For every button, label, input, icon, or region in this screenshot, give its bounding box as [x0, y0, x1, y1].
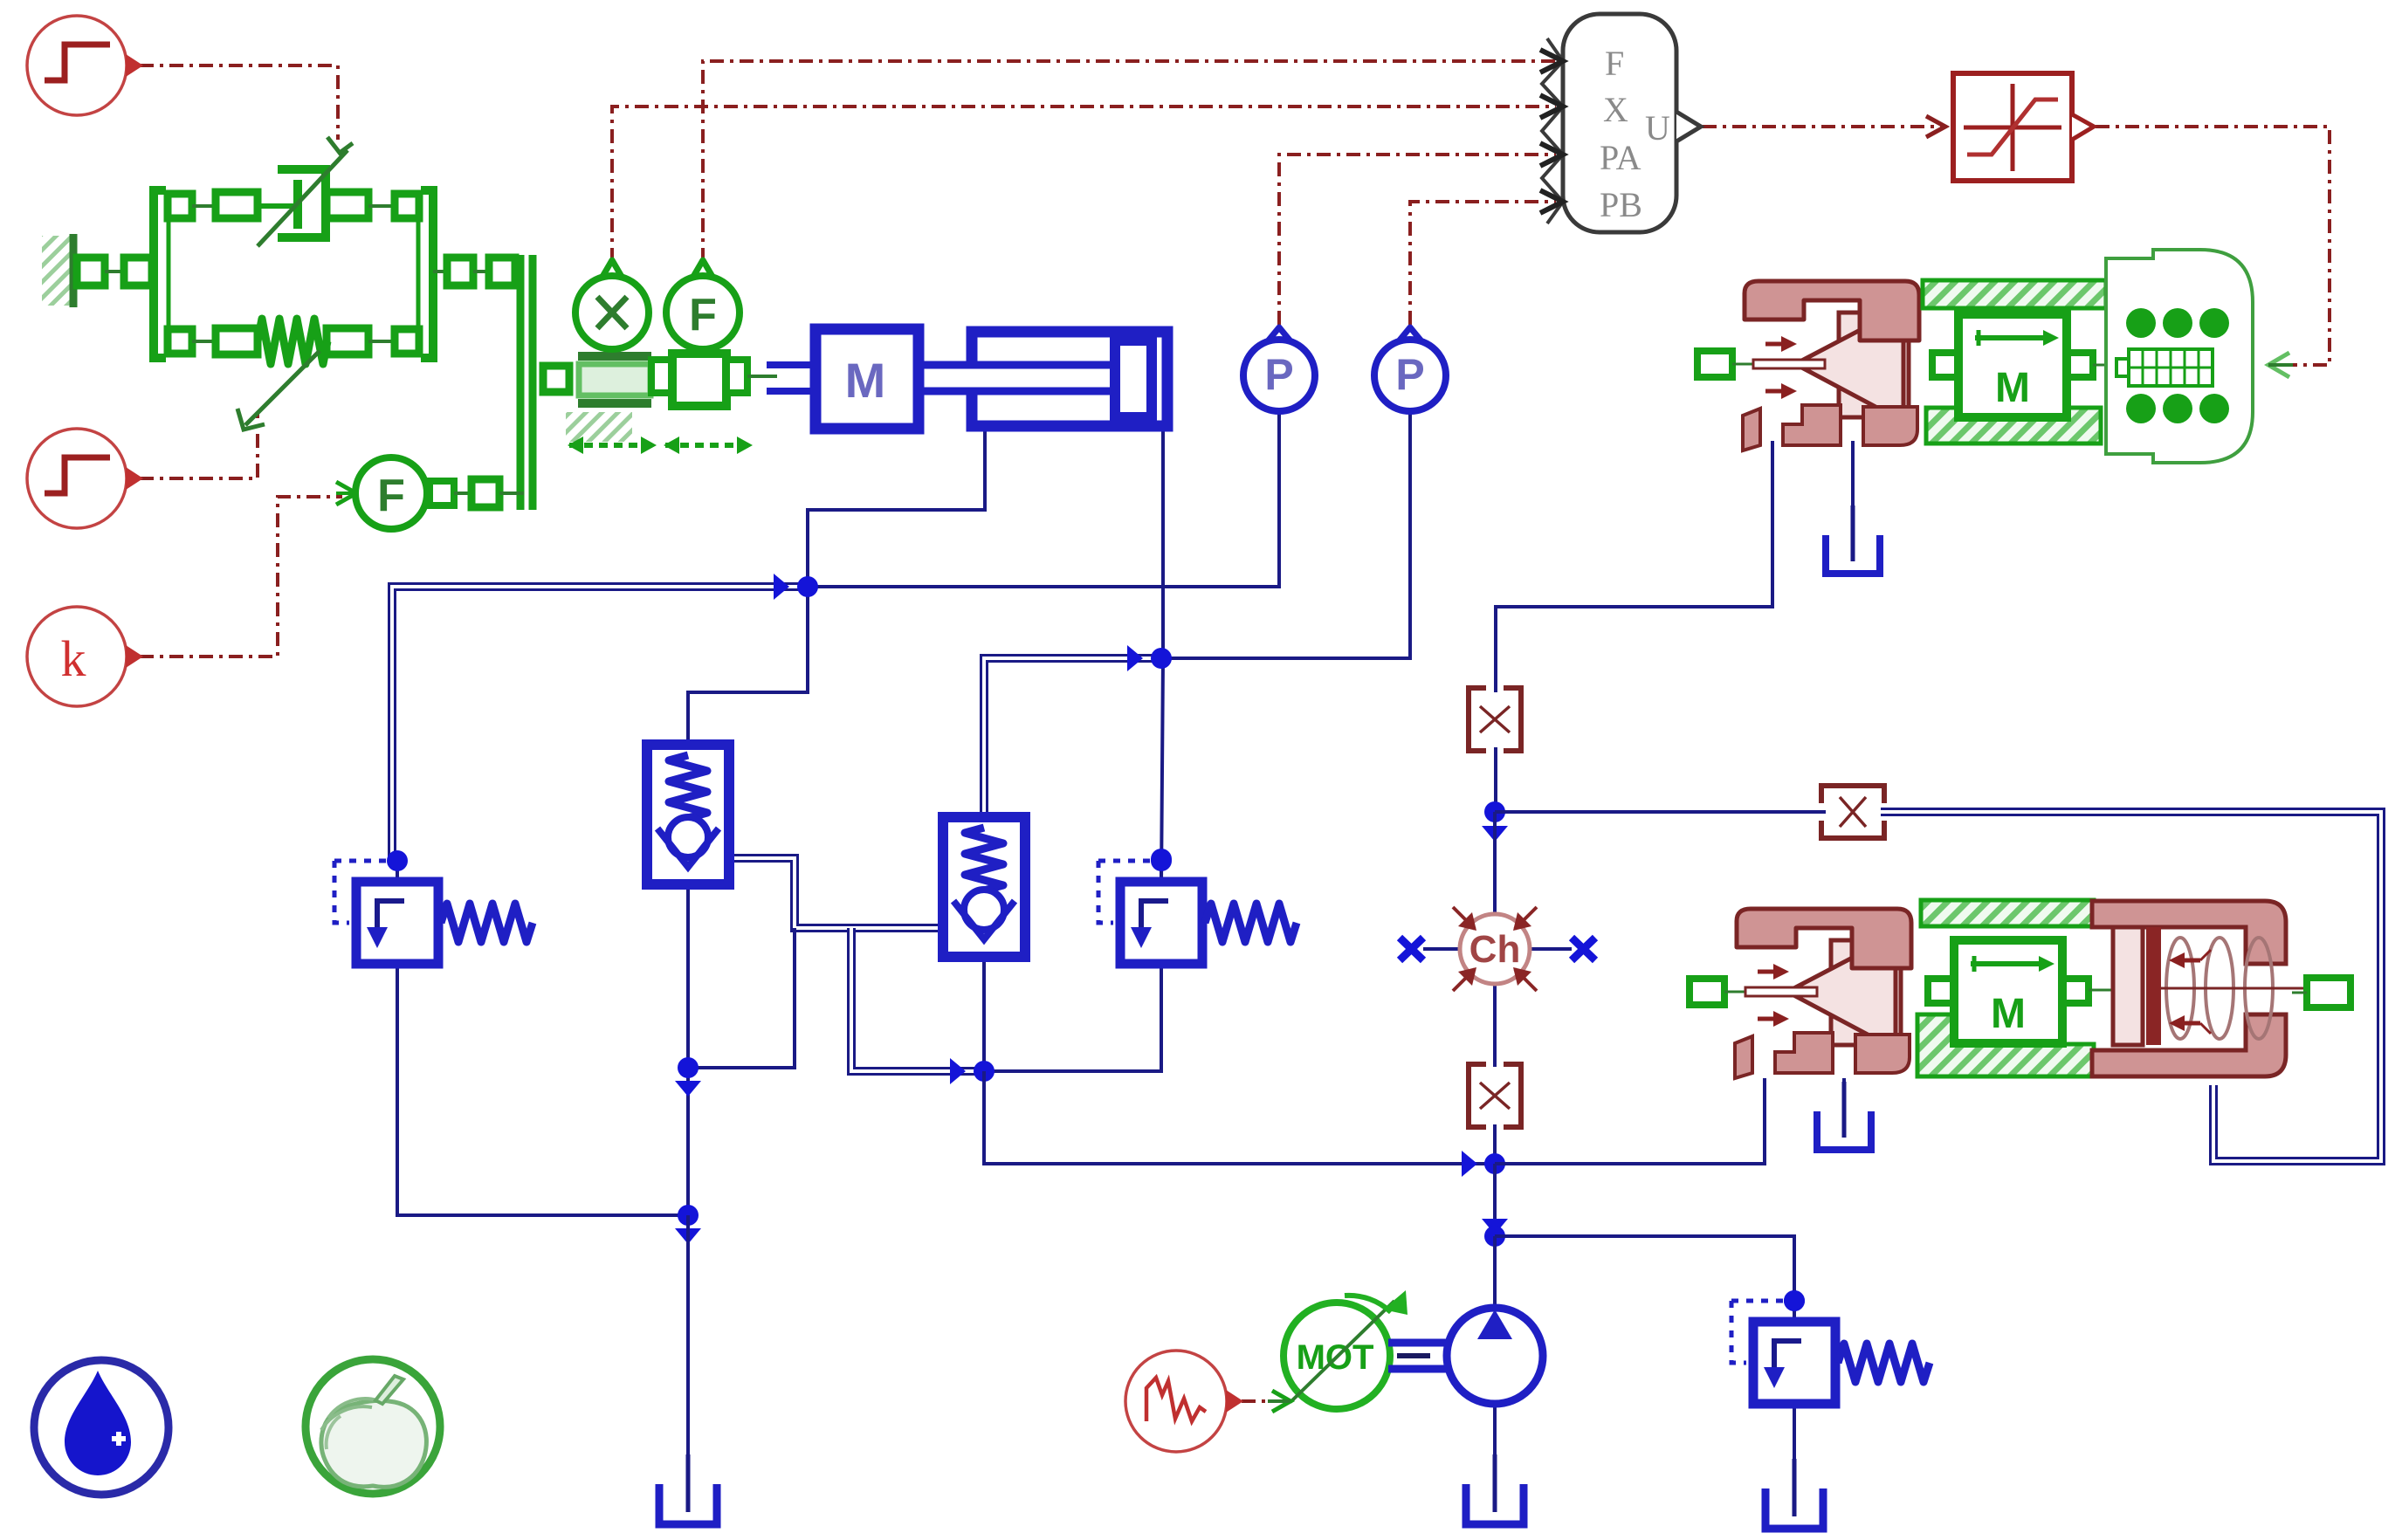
wire node J4 down to supply bus junction JA — [984, 1071, 1495, 1164]
wire feedback: orifice X1 to servo valve 2 right port (double) — [1881, 812, 2381, 1161]
rigid load bar — [520, 255, 533, 510]
wire node JB down to pump inlet — [1493, 1236, 1497, 1311]
nozzle arrows — [1765, 342, 1783, 347]
spool — [1831, 940, 1901, 1045]
wire servo valve 1 supply port down-left to orifice O1 — [1496, 441, 1772, 692]
motion arrows — [568, 437, 657, 454]
wire node JA right to servo valve 2 supply port — [1495, 1078, 1765, 1164]
node J3 — [678, 1057, 699, 1078]
wire step2 to spring setting — [140, 414, 258, 478]
check valve CV1 — [647, 745, 729, 884]
svg-text:F: F — [1605, 44, 1624, 83]
wall port links — [77, 258, 152, 285]
sensor F — [666, 260, 740, 349]
svg-text:M: M — [1995, 365, 2030, 411]
wire P2 gauge down to chamber B line — [1161, 410, 1410, 658]
damper (variable) — [258, 137, 353, 246]
wire P1 to mixer PA input — [1279, 155, 1556, 325]
coil hatch top — [1921, 900, 2094, 926]
svg-text:X: X — [1603, 90, 1628, 129]
svg-text:M: M — [1991, 991, 2026, 1037]
step source 2 — [27, 429, 143, 528]
valve top casing — [1737, 909, 1911, 968]
left body bracket — [154, 190, 192, 358]
orifice O2 — [1469, 1064, 1521, 1127]
wire RV2 bottom to node J4 — [984, 964, 1161, 1071]
right casing maroon — [2092, 901, 2286, 964]
valve bottom casing pieces — [1735, 1036, 1752, 1078]
svg-text:PA: PA — [1600, 138, 1641, 177]
pump — [1447, 1308, 1543, 1404]
spool piston — [2113, 927, 2143, 1045]
spool — [1839, 313, 1909, 417]
wire servo valve 1 drain to tank T2 — [1851, 441, 1855, 546]
flapper cone — [1795, 307, 1903, 422]
svg-text:U: U — [1645, 108, 1670, 148]
relief valve RV3 — [1731, 1290, 1930, 1404]
wire CV2 left port to node J4 (double) — [851, 928, 984, 1071]
svg-text:F: F — [377, 471, 405, 521]
mass block M — [767, 329, 919, 429]
tank T2 (servo valve 1 drain) — [1826, 535, 1880, 574]
sensor X — [575, 260, 649, 349]
spring branch ports — [192, 328, 395, 354]
needle — [1745, 987, 1817, 996]
bar to transducer port — [543, 366, 569, 392]
check valve CV2 — [943, 817, 1025, 957]
spring arrows — [2183, 959, 2200, 963]
piston rod — [919, 365, 1116, 391]
wire J2 to check valve CV2 top (double) — [984, 658, 1161, 817]
wire cylinder chamber A down to node J1 — [808, 428, 985, 587]
coil hatch top — [1923, 280, 2106, 308]
noise source — [1125, 1351, 1243, 1452]
svg-text:PB: PB — [1600, 185, 1642, 224]
wire P1 gauge down to chamber A line — [816, 410, 1279, 587]
right port squares — [433, 258, 515, 285]
wire J5 down to tank T1 — [686, 1215, 690, 1495]
servo amplifier mixer block — [1540, 14, 1701, 232]
wire J1 down to check valve CV1 top — [688, 587, 808, 746]
node J2 — [1127, 645, 1143, 671]
position transducer X body — [566, 352, 651, 442]
svg-text:k: k — [61, 630, 86, 687]
orifice X1 — [1821, 786, 1884, 838]
node JB — [1482, 1219, 1508, 1234]
svg-text:F: F — [689, 290, 717, 340]
coil hatch bottom — [1926, 408, 2101, 443]
wire k to force source F2 — [140, 497, 342, 657]
node J4 — [950, 1058, 966, 1084]
node J5 — [678, 1205, 699, 1226]
wire J1 to relief valve RV1 (double) — [392, 587, 808, 860]
torque motor M — [1928, 979, 1954, 1003]
servo valve SV2 — [1690, 900, 2350, 1078]
valve top casing — [1745, 281, 1919, 340]
svg-text:P: P — [1264, 350, 1293, 399]
force sensor block — [651, 354, 777, 406]
step source 1 — [27, 16, 143, 115]
wire servo valve 2 drain to tank T5 — [1842, 1078, 1846, 1122]
pressure gauge P1 — [1267, 327, 1291, 342]
armature dots — [2126, 308, 2156, 338]
valve bottom casing pieces — [1743, 409, 1760, 450]
servo valve SV1 — [1697, 250, 2293, 463]
svg-text:Ch: Ch — [1469, 928, 1521, 971]
wire P2 to mixer PB input — [1410, 202, 1556, 325]
green mech port — [1690, 979, 1724, 1005]
wire CV1 side port loop to J3 bus (double then single) — [732, 858, 946, 928]
tank T3 (pump) — [1466, 1484, 1524, 1524]
wire cylinder chamber B down to node J2 — [1161, 428, 1163, 883]
tank T4 (RV3) — [1765, 1488, 1823, 1529]
saturation block — [1953, 73, 2094, 181]
wire F sensor to mixer F input — [703, 61, 1556, 262]
force source F2 — [336, 457, 524, 529]
node JC — [1484, 801, 1505, 822]
relief valve RV2 — [1098, 850, 1297, 964]
pressure gauge P2 — [1398, 327, 1422, 342]
wire feedback: JC right to orifice X1 — [1495, 810, 1826, 814]
svg-text:P: P — [1395, 350, 1424, 399]
logo apple — [306, 1359, 440, 1494]
wire noise source to MOT — [1242, 1399, 1268, 1403]
wire step1 to damper setting — [140, 65, 338, 140]
wire mixer U output to saturation — [1703, 125, 1945, 128]
wire orifice O1 to node JC — [1494, 747, 1497, 812]
wire Ch bottom to orifice O2 — [1493, 981, 1497, 1067]
node JA — [1462, 1151, 1477, 1177]
wire node JB right to relief valve RV3 — [1495, 1236, 1794, 1323]
green mech port — [1697, 351, 1732, 377]
relief valve RV1 — [334, 850, 533, 964]
wire node JA down to node JB — [1493, 1164, 1497, 1236]
tank T1 — [659, 1484, 717, 1524]
orifice O1 — [1469, 688, 1521, 751]
chamber Ch — [1400, 907, 1595, 991]
spring (variable) — [258, 319, 327, 364]
node RV3 pilot junction — [1784, 1290, 1805, 1311]
nozzle arrows — [1758, 970, 1775, 974]
wire CV2 bottom to node J4 — [982, 957, 986, 1071]
electric input arrow — [2268, 353, 2289, 377]
node J1 — [774, 574, 789, 600]
wire pump bottom to tank T3 — [1493, 1402, 1497, 1495]
armature housing — [2106, 250, 2253, 463]
damper branch ports — [192, 192, 395, 218]
needle — [1753, 360, 1825, 368]
wire CV1 bottom to node J3 — [686, 879, 690, 1215]
shaft — [1388, 1343, 1449, 1369]
wire RV1 bottom to node J5 — [397, 964, 688, 1215]
hydraulic cylinder — [972, 332, 1167, 426]
svg-text:M: M — [845, 353, 886, 408]
logo water drop — [34, 1360, 169, 1495]
wire X sensor to mixer X input — [612, 107, 1556, 262]
torque motor M — [1932, 353, 1958, 377]
coil hatch bottom — [1917, 1014, 2094, 1076]
right body bracket — [395, 190, 433, 358]
right green port — [2307, 978, 2350, 1007]
variable motor MOT — [1268, 1290, 1407, 1412]
constant source k — [27, 607, 143, 706]
node RV2 pilot junction — [1151, 849, 1172, 870]
wire RV3 bottom to tank T4 — [1793, 1400, 1796, 1497]
tank T5 (servo valve 2 drain) — [1817, 1111, 1871, 1150]
feedback grid — [2116, 349, 2213, 386]
wire saturation to servo valve 1 torque motor — [2096, 127, 2330, 365]
ground wall — [42, 234, 73, 307]
flapper cone — [1787, 935, 1896, 1049]
spring coils — [2166, 938, 2194, 1039]
wire node JC down to chamber Ch — [1493, 812, 1497, 917]
wire orifice O2 to node JA — [1493, 1124, 1497, 1164]
